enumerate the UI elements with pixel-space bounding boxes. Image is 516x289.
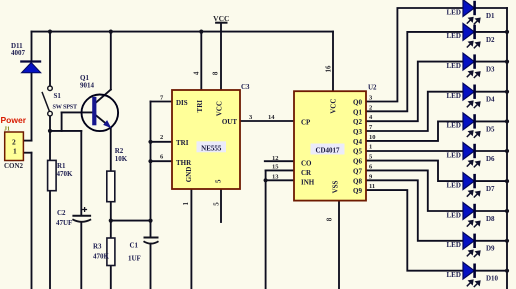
wire CR INH ground vertical <box>265 170 267 289</box>
wire D5 cathode <box>475 120 508 122</box>
svg-text:LED: LED <box>447 271 461 279</box>
node VCC rail / collector junction <box>109 30 113 34</box>
wire Q7 to D8 <box>366 170 463 211</box>
LED D2 <box>447 24 496 49</box>
node R2-R3 junction <box>109 219 113 223</box>
svg-text:Q3: Q3 <box>353 128 362 136</box>
svg-text:D5: D5 <box>486 125 495 133</box>
wire 555 pin6 <box>151 160 173 162</box>
wire Q9 to D10 <box>366 190 463 271</box>
svg-text:1UF: 1UF <box>128 255 141 263</box>
wire collector diagonal <box>96 90 111 104</box>
svg-text:D8: D8 <box>486 215 495 223</box>
wire C1 down <box>150 244 152 289</box>
wire Q0 to D1 <box>366 8 463 102</box>
node cathode rail D4 <box>505 90 509 94</box>
svg-text:J1: J1 <box>4 127 10 133</box>
svg-text:Q7: Q7 <box>353 167 362 175</box>
wire R3 down <box>110 266 112 289</box>
svg-text:LED: LED <box>447 32 461 40</box>
wire D7 cathode <box>475 180 508 182</box>
wire D9 cathode <box>475 240 508 242</box>
LED D8 <box>447 203 496 228</box>
wire Q5 to D6 <box>366 150 463 152</box>
pin number labels NE555 <box>160 71 275 206</box>
svg-text:Power: Power <box>1 115 27 125</box>
wire D3 cathode <box>475 61 508 63</box>
svg-text:CD4017: CD4017 <box>315 147 340 155</box>
svg-text:DIS: DIS <box>176 99 188 107</box>
wire left rail upper <box>31 32 33 61</box>
svg-text:11: 11 <box>369 183 375 190</box>
svg-text:D9: D9 <box>486 245 495 253</box>
diode D11 <box>11 42 41 73</box>
transistor Q1 <box>80 74 118 131</box>
svg-text:NE555: NE555 <box>201 144 222 152</box>
svg-text:Q9: Q9 <box>353 187 362 195</box>
LED D5 <box>447 113 496 138</box>
wire 555 pin8 VCC <box>220 23 222 90</box>
wire R1 down <box>49 191 51 289</box>
svg-text:LED: LED <box>447 181 461 189</box>
wire D1 cathode <box>475 7 508 9</box>
svg-text:2: 2 <box>369 104 372 111</box>
svg-text:10: 10 <box>369 134 376 141</box>
wire D2 cathode <box>475 31 508 33</box>
svg-text:VCC: VCC <box>330 99 338 114</box>
wire Q8 to D9 <box>366 180 463 241</box>
svg-text:D2: D2 <box>486 36 495 44</box>
wire 555 pin1 GND <box>190 189 192 289</box>
wire DIS net vertical <box>150 102 152 221</box>
svg-text:2: 2 <box>12 137 16 146</box>
svg-text:LED: LED <box>447 62 461 70</box>
svg-text:INH: INH <box>301 179 315 187</box>
wire emitter down <box>110 128 112 172</box>
LED D6 <box>447 143 496 168</box>
wire D6 cathode <box>475 150 508 152</box>
svg-text:Q5: Q5 <box>353 148 362 156</box>
wire left ground down <box>31 153 33 289</box>
resistor R2 <box>107 147 128 202</box>
svg-text:12: 12 <box>272 155 279 162</box>
resistor R3 <box>93 238 115 266</box>
LED D9 <box>447 232 496 257</box>
svg-text:LED: LED <box>447 211 461 219</box>
svg-text:14: 14 <box>268 114 275 121</box>
pin number labels CD4017 <box>272 65 376 221</box>
wire C1 drop <box>150 221 152 237</box>
wire C2 drop <box>80 131 82 215</box>
node cathode rail D2 <box>505 30 509 34</box>
wire OUT to CP <box>240 120 294 122</box>
VCC power symbol <box>213 14 229 23</box>
LED D3 <box>447 53 496 78</box>
svg-text:D1: D1 <box>486 12 495 20</box>
wire node branch to C2 <box>50 130 81 132</box>
wire Q2 to D3 <box>366 62 463 122</box>
node cathode rail D3 <box>505 60 509 64</box>
svg-text:1: 1 <box>369 144 372 151</box>
wire diode to connector pin2 <box>31 73 33 141</box>
svg-text:Q1: Q1 <box>353 108 362 116</box>
svg-text:LED: LED <box>447 92 461 100</box>
wire RC branch <box>111 220 151 222</box>
LED D1 <box>447 0 496 24</box>
svg-text:16: 16 <box>324 65 332 73</box>
wire Q1 to D2 <box>366 32 463 111</box>
wire D8 cathode <box>475 210 508 212</box>
wire base drop <box>61 112 63 130</box>
svg-text:LED: LED <box>447 8 461 16</box>
wire connector pin1 stub <box>23 152 31 154</box>
svg-text:8: 8 <box>212 71 220 75</box>
svg-text:10K: 10K <box>115 155 128 163</box>
svg-text:1: 1 <box>182 201 190 205</box>
wire INH pin13 <box>266 179 294 181</box>
svg-text:D7: D7 <box>486 185 495 193</box>
node cathode rail D7 <box>505 179 509 183</box>
wire Q4 to D5 <box>366 121 463 140</box>
wire 4017 VSS pin8 <box>338 201 340 289</box>
svg-text:OUT: OUT <box>222 118 238 126</box>
capacitor C2 <box>56 207 91 227</box>
wire collector up <box>110 32 112 90</box>
svg-text:D10: D10 <box>486 275 499 283</box>
svg-text:TRI: TRI <box>196 100 204 113</box>
wire connector pin2 stub <box>23 140 31 142</box>
svg-text:LED: LED <box>447 122 461 130</box>
node VCC rail / pin4 junction <box>199 30 203 34</box>
node TRI pin2 junction <box>148 140 152 144</box>
node cathode rail D5 <box>505 119 509 123</box>
node CR-INH junction <box>264 178 268 182</box>
svg-text:2: 2 <box>160 134 163 141</box>
svg-text:8: 8 <box>326 217 334 221</box>
svg-text:470K: 470K <box>57 170 74 178</box>
svg-text:GND: GND <box>185 167 193 183</box>
wire CO pin12 stub <box>265 160 294 162</box>
svg-text:THR: THR <box>176 159 192 167</box>
node cathode rail D9 <box>505 239 509 243</box>
svg-text:Q0: Q0 <box>353 99 362 107</box>
svg-text:CR: CR <box>301 169 312 177</box>
svg-text:VCC: VCC <box>216 101 224 116</box>
wire D4 cathode <box>475 91 508 93</box>
svg-text:CON2: CON2 <box>4 162 24 170</box>
IC U2 CD4017 counter <box>294 84 377 201</box>
wire base <box>62 111 93 113</box>
svg-text:C2: C2 <box>57 209 66 217</box>
switch S1 <box>42 86 78 116</box>
svg-text:Q4: Q4 <box>353 138 362 146</box>
wire 555 pin5 stub <box>220 189 222 222</box>
svg-text:1: 1 <box>13 147 17 156</box>
LED D7 <box>447 173 496 198</box>
svg-text:Q2: Q2 <box>353 118 362 126</box>
wire CR pin15 <box>266 169 294 171</box>
svg-text:S1: S1 <box>54 92 62 100</box>
svg-text:470K: 470K <box>93 253 110 261</box>
wire 555 pin2 <box>151 141 173 143</box>
node RC-C1 junction <box>148 219 152 223</box>
svg-text:D3: D3 <box>486 66 495 74</box>
svg-text:LED: LED <box>447 151 461 159</box>
svg-text:5: 5 <box>213 202 221 206</box>
wire R2 to R3 <box>110 202 112 238</box>
wire 555 pin4 <box>200 32 202 90</box>
svg-text:SW SPST: SW SPST <box>53 103 79 110</box>
wire rail to switch <box>49 32 51 86</box>
svg-text:C1: C1 <box>130 242 139 250</box>
svg-text:5: 5 <box>215 179 223 183</box>
svg-text:15: 15 <box>272 164 279 171</box>
svg-text:D6: D6 <box>486 155 495 163</box>
svg-text:47UF: 47UF <box>56 219 72 227</box>
node THR pin6 junction <box>148 159 152 163</box>
svg-text:R2: R2 <box>115 147 124 155</box>
svg-text:VSS: VSS <box>331 180 339 193</box>
svg-text:VCC: VCC <box>213 14 229 23</box>
svg-text:D4: D4 <box>486 96 495 104</box>
wire Q6 to D7 <box>366 161 463 182</box>
wire 555 pin7 <box>151 101 173 103</box>
IC C3 NE555 timer <box>172 83 250 189</box>
wire emitter diagonal <box>96 115 109 126</box>
svg-text:U2: U2 <box>368 84 377 92</box>
capacitor C1 <box>128 238 159 263</box>
svg-text:4007: 4007 <box>11 49 26 57</box>
svg-text:13: 13 <box>272 173 279 180</box>
svg-text:R1: R1 <box>57 162 66 170</box>
node cathode rail D6 <box>505 149 509 153</box>
wire rail to CD4017 pin16 <box>332 32 334 92</box>
connector J1 CON2 <box>1 115 27 170</box>
svg-text:Q6: Q6 <box>353 158 362 166</box>
svg-text:LED: LED <box>447 241 461 249</box>
wire Q3 to D4 <box>366 92 463 131</box>
wire switch to R1 <box>49 116 51 161</box>
svg-text:C3: C3 <box>241 83 250 91</box>
resistor R1 <box>48 160 73 190</box>
node VCC rail / switch junction <box>48 30 52 34</box>
wire D10 cathode <box>475 270 508 272</box>
node switch-R1-C2-base junction <box>48 129 52 133</box>
wire C2 down <box>80 223 82 289</box>
LED D4 <box>447 83 496 108</box>
svg-text:R3: R3 <box>93 243 102 251</box>
svg-text:9014: 9014 <box>80 82 95 90</box>
node cathode rail D10 <box>505 269 509 273</box>
svg-text:TRI: TRI <box>176 139 189 147</box>
wire VCC top rail <box>32 31 334 33</box>
LED D10 <box>447 262 499 287</box>
svg-text:4: 4 <box>192 71 200 75</box>
node cathode rail D8 <box>505 209 509 213</box>
wire right rail <box>506 8 508 289</box>
svg-text:CP: CP <box>301 119 311 127</box>
svg-text:Q8: Q8 <box>353 177 362 185</box>
svg-text:CO: CO <box>301 160 312 168</box>
